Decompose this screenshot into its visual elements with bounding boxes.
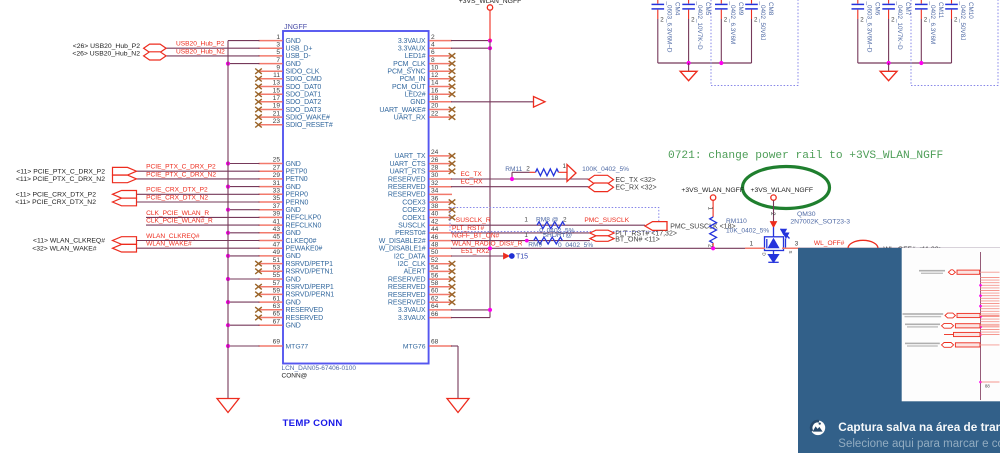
svg-text:2: 2 [924,17,928,24]
svg-text:UART_RTS: UART_RTS [390,169,426,176]
svg-text:_0402_10V7K~D: _0402_10V7K~D [696,1,703,51]
svg-text:35: 35 [273,195,281,202]
svg-text:GND: GND [286,230,301,237]
svg-text:67: 67 [273,318,281,325]
svg-text:64: 64 [431,303,439,310]
svg-text:24: 24 [431,149,439,156]
svg-text:EC_RX <32>: EC_RX <32> [615,185,656,192]
svg-text:WLAN_CLKREQ#: WLAN_CLKREQ# [146,233,200,240]
svg-text:33: 33 [273,188,281,195]
svg-text:1: 1 [750,241,754,248]
svg-text:W_DISABLE2#: W_DISABLE2# [379,238,426,245]
svg-text:2N7002K_SOT23-3: 2N7002K_SOT23-3 [790,219,850,226]
svg-text:1: 1 [276,34,280,41]
svg-text:41: 41 [273,218,281,225]
svg-text:66: 66 [431,311,439,318]
svg-text:2: 2 [754,17,758,24]
svg-text:RSRVD/PERP1: RSRVD/PERP1 [286,284,334,291]
svg-text:PCIE_CRX_DTX_N2: PCIE_CRX_DTX_N2 [146,194,208,201]
svg-text:16: 16 [431,87,439,94]
svg-text:PETP0: PETP0 [286,169,308,176]
svg-text:WLAN_RADIO_DIS#_R: WLAN_RADIO_DIS#_R [452,240,523,247]
svg-text:E51_RX2: E51_RX2 [461,248,490,255]
svg-text:RESERVED: RESERVED [388,284,426,291]
svg-text:2: 2 [954,17,958,24]
svg-text:RESERVED: RESERVED [286,307,324,314]
svg-text:RM11: RM11 [505,166,522,173]
svg-text:CM10: CM10 [967,2,974,19]
svg-text:62: 62 [431,295,439,302]
svg-text:46: 46 [431,234,439,241]
svg-text:NGFF_BT_ON#: NGFF_BT_ON# [452,233,500,240]
svg-text:15: 15 [273,87,281,94]
svg-text:<32> WLAN_WAKE#: <32> WLAN_WAKE# [32,245,97,252]
svg-text:PCM_CLK: PCM_CLK [393,61,426,68]
svg-text:RESERVED: RESERVED [388,176,426,183]
svg-text:RM9: RM9 [528,241,542,248]
svg-text:USB20_Hub_P2: USB20_Hub_P2 [176,41,225,48]
svg-text:MTG77: MTG77 [286,343,309,350]
svg-text:I2C_DATA: I2C_DATA [394,253,426,260]
svg-text:_0402_50V8J: _0402_50V8J [759,1,766,41]
svg-text:_0402_10V7K~D: _0402_10V7K~D [896,1,903,51]
svg-text:COEX1: COEX1 [402,215,425,222]
svg-text:3.3VAUX: 3.3VAUX [398,38,426,45]
svg-text:GND: GND [286,276,301,283]
svg-text:5: 5 [276,49,280,56]
svg-text:_0603_6.3V6M~D: _0603_6.3V6M~D [865,1,872,53]
svg-text:_0402_6.3V6M: _0402_6.3V6M [929,1,936,45]
svg-text:58: 58 [431,280,439,287]
svg-text:2: 2 [660,17,664,24]
svg-text:8: 8 [431,57,435,64]
svg-text:<11> PCIE_PTX_C_DRX_N2: <11> PCIE_PTX_C_DRX_N2 [16,176,105,183]
svg-text:54: 54 [431,265,439,272]
svg-text:GND: GND [286,38,301,45]
svg-text:SUSCLK_R: SUSCLK_R [456,217,491,224]
svg-text:4: 4 [431,42,435,49]
svg-text:MTG76: MTG76 [403,343,426,350]
svg-text:1: 1 [524,232,528,239]
svg-text:<11> PCIE_PTX_C_DRX_P2: <11> PCIE_PTX_C_DRX_P2 [16,168,105,175]
svg-text:CM7: CM7 [904,2,911,16]
svg-text:JNGFF: JNGFF [284,22,308,31]
svg-text:10: 10 [431,64,439,71]
svg-text:56: 56 [431,272,439,279]
svg-text:TEMP CONN: TEMP CONN [283,418,343,429]
svg-text:17: 17 [273,95,281,102]
svg-text:14: 14 [431,80,439,87]
svg-text:WLAN_WAKE#: WLAN_WAKE# [146,241,192,248]
svg-text:CLK_PCIE_WLAN_R: CLK_PCIE_WLAN_R [146,210,209,217]
svg-text:1: 1 [707,207,714,211]
svg-text:PCM_IN: PCM_IN [400,76,426,83]
svg-text:30: 30 [431,172,439,179]
svg-text:19: 19 [273,103,281,110]
svg-text:+3VS_WLAN_NGFF: +3VS_WLAN_NGFF [681,187,744,194]
svg-text:USB_D+: USB_D+ [286,46,313,53]
svg-text:42: 42 [431,218,439,225]
svg-text:UART_CTS: UART_CTS [389,161,425,168]
svg-text:2: 2 [769,212,776,216]
svg-text:SDO_DAT3: SDO_DAT3 [286,107,322,114]
svg-text:GND: GND [286,161,301,168]
svg-text:_0603_6.3V6M~D: _0603_6.3V6M~D [665,1,672,53]
svg-text:2: 2 [691,17,695,24]
svg-text:43: 43 [273,226,281,233]
svg-text:1: 1 [524,217,528,224]
svg-text:_0402_50V8J: _0402_50V8J [959,1,966,41]
svg-text:PCM_OUT: PCM_OUT [392,84,426,91]
svg-text:<11> WLAN_CLKREQ#: <11> WLAN_CLKREQ# [33,238,105,245]
svg-text:9: 9 [276,64,280,71]
svg-text:3.3VAUX: 3.3VAUX [398,315,426,322]
svg-text:SHORT@: SHORT@ [543,232,573,239]
svg-text:CM6: CM6 [873,2,880,16]
svg-text:RESERVED: RESERVED [388,292,426,299]
svg-text:GND: GND [286,323,301,330]
svg-text:63: 63 [273,303,281,310]
svg-text:REFCLKP0: REFCLKP0 [286,215,322,222]
svg-text:COEX3: COEX3 [402,199,425,206]
svg-text:CLK_PCIE_WLAN#_R: CLK_PCIE_WLAN#_R [146,218,213,225]
svg-text:GND: GND [286,207,301,214]
svg-text:13: 13 [273,80,281,87]
svg-text:31: 31 [273,180,281,187]
svg-text:PEWAKE0#: PEWAKE0# [286,246,323,253]
svg-text:QM30: QM30 [797,211,816,218]
svg-text:48: 48 [431,242,439,249]
svg-text:GND: GND [410,99,425,106]
svg-text:RESERVED: RESERVED [388,184,426,191]
svg-text:3: 3 [276,42,280,49]
svg-text:53: 53 [273,265,281,272]
svg-text:23: 23 [273,118,281,125]
svg-text:PCM_SYNC: PCM_SYNC [387,69,425,76]
svg-text:RM8 @: RM8 @ [536,217,559,224]
svg-text:2: 2 [707,244,714,248]
svg-text:CM9: CM9 [737,2,744,16]
svg-text:EC_RX: EC_RX [461,179,484,186]
svg-text:UART_TX: UART_TX [394,153,425,160]
svg-text:WL_OFF#: WL_OFF# [814,240,845,247]
svg-text:CONN@: CONN@ [282,372,308,379]
svg-text:49: 49 [273,249,281,256]
svg-text:69: 69 [273,339,281,346]
svg-text:44: 44 [431,226,439,233]
svg-text:10K_0402_5%: 10K_0402_5% [726,228,769,235]
svg-text:EC_TX: EC_TX [461,171,483,178]
svg-text:CM4: CM4 [673,2,680,16]
svg-text:GND: GND [286,299,301,306]
svg-text:CLKEQ0#: CLKEQ0# [286,238,317,245]
svg-text:REFCLKN0: REFCLKN0 [286,222,322,229]
svg-text:2: 2 [860,17,864,24]
svg-text:11: 11 [273,72,280,79]
svg-text:CM8: CM8 [767,2,774,16]
svg-text:UART_RX: UART_RX [394,114,426,121]
svg-text:28: 28 [431,165,439,172]
svg-text:38: 38 [431,203,439,210]
svg-text:COEX2: COEX2 [402,207,425,214]
svg-text:6: 6 [431,49,435,56]
svg-text:EC_TX <32>: EC_TX <32> [615,177,655,184]
svg-text:7: 7 [276,57,280,64]
svg-text:65: 65 [273,311,281,318]
svg-text:SDO_DAT1: SDO_DAT1 [286,92,322,99]
svg-text:PERP0: PERP0 [286,192,309,199]
svg-text:PERST0#: PERST0# [395,230,426,237]
svg-text:USB_D-: USB_D- [286,53,312,60]
svg-text:I2C_CLK: I2C_CLK [398,261,426,268]
svg-text:RSRVD/PETN1: RSRVD/PETN1 [286,269,334,276]
svg-text:<11> PCIE_CRX_DTX_P2: <11> PCIE_CRX_DTX_P2 [16,192,97,199]
svg-text:PCIE_PTX_C_DRX_N2: PCIE_PTX_C_DRX_N2 [146,171,216,178]
svg-text:LED2#: LED2# [405,92,426,99]
svg-text:GND: GND [286,253,301,260]
svg-text:GND: GND [286,184,301,191]
svg-text:25: 25 [273,157,281,164]
svg-text:SUSCLK: SUSCLK [398,223,426,230]
svg-text:29: 29 [273,172,281,179]
svg-text:12: 12 [431,72,439,79]
svg-text:SDIO_WAKE#: SDIO_WAKE# [286,114,330,121]
svg-text:+3VS_WLAN_NGFF: +3VS_WLAN_NGFF [459,0,522,5]
svg-text:USB20_Hub_N2: USB20_Hub_N2 [176,49,225,56]
svg-text:22: 22 [431,110,439,117]
svg-text:RM110: RM110 [726,218,747,225]
svg-text:20: 20 [431,103,439,110]
svg-text:2: 2 [431,34,435,41]
svg-text:2: 2 [526,166,530,173]
svg-text:PCIE_CRX_DTX_P2: PCIE_CRX_DTX_P2 [146,187,208,194]
svg-text:18: 18 [431,95,439,102]
svg-text:RESERVED: RESERVED [388,192,426,199]
svg-text:SIDO_CLK: SIDO_CLK [286,69,320,76]
svg-text:2: 2 [891,17,895,24]
svg-text:SDO_DAT2: SDO_DAT2 [286,99,322,106]
svg-text:PCIE_PTX_C_DRX_P2: PCIE_PTX_C_DRX_P2 [146,164,216,171]
svg-text:ALERT: ALERT [404,269,427,276]
svg-text:PMC_SUSCLK: PMC_SUSCLK [584,217,629,224]
svg-text:_0402_6.3V6M: _0402_6.3V6M [729,1,736,45]
svg-text:52: 52 [431,257,439,264]
svg-text:T15: T15 [516,254,528,261]
svg-text:59: 59 [273,288,281,295]
svg-text:68: 68 [431,339,439,346]
svg-text:45: 45 [273,234,281,241]
svg-text:S: S [788,251,793,254]
svg-text:W_DISABLE1#: W_DISABLE1# [379,246,426,253]
svg-text:RESERVED: RESERVED [286,315,324,322]
svg-text:CM11: CM11 [937,2,944,19]
svg-text:PLT_RST#: PLT_RST# [452,225,484,232]
svg-text:LED1#: LED1# [405,53,426,60]
svg-text:CM5: CM5 [704,2,711,16]
svg-text:3.3VAUX: 3.3VAUX [398,307,426,314]
svg-text:+3VS_WLAN_NGFF: +3VS_WLAN_NGFF [751,187,814,194]
svg-text:55: 55 [273,272,281,279]
svg-text:RSRVD/PERN1: RSRVD/PERN1 [286,292,335,299]
svg-text:50: 50 [431,249,439,256]
svg-text:1: 1 [563,163,567,170]
svg-text:26: 26 [431,157,439,164]
svg-text:36: 36 [431,195,439,202]
svg-text:RSRVD/PETP1: RSRVD/PETP1 [286,261,334,268]
svg-text:LCN_DAN05-67406-0100: LCN_DAN05-67406-0100 [282,365,357,372]
svg-text:60: 60 [431,288,439,295]
svg-text:40: 40 [431,211,439,218]
svg-text:PERN0: PERN0 [286,199,309,206]
svg-text:88: 88 [985,384,990,389]
svg-text:Captura salva na área de trans: Captura salva na área de transferência [838,420,1000,434]
svg-text:<26> USB20_Hub_N2: <26> USB20_Hub_N2 [72,50,140,57]
svg-text:<11> PCIE_CRX_DTX_N2: <11> PCIE_CRX_DTX_N2 [15,199,96,206]
svg-text:GND: GND [286,61,301,68]
svg-text:BT_ON# <11>: BT_ON# <11> [615,237,660,244]
svg-text:61: 61 [273,295,281,302]
svg-text:SDIO_CMD: SDIO_CMD [286,76,322,83]
svg-text:PETN0: PETN0 [286,176,308,183]
svg-text:37: 37 [273,203,281,210]
svg-text:3.3VAUX: 3.3VAUX [398,46,426,53]
svg-text:2: 2 [724,17,728,24]
svg-text:39: 39 [273,211,281,218]
svg-text:RESERVED: RESERVED [388,300,426,307]
svg-text:100K_0402_5%: 100K_0402_5% [582,166,629,173]
svg-text:57: 57 [273,280,281,287]
svg-text:Selecione aqui para marcar e c: Selecione aqui para marcar e compartilha… [838,438,1000,450]
svg-text:3: 3 [795,241,799,248]
svg-text:34: 34 [431,188,439,195]
svg-text:21: 21 [273,110,281,117]
svg-text:51: 51 [273,257,281,264]
svg-text:<26> USB20_Hub_P2: <26> USB20_Hub_P2 [73,43,140,50]
svg-text:SDIO_RESET#: SDIO_RESET# [286,122,333,129]
svg-text:27: 27 [273,164,281,171]
svg-text:SDO_DAT0: SDO_DAT0 [286,84,322,91]
svg-text:2: 2 [563,217,567,224]
svg-text:32: 32 [431,180,439,187]
svg-text:UART_WAKE#: UART_WAKE# [379,107,425,114]
svg-text:0721: change power rail to +3V: 0721: change power rail to +3VS_WLAN_NGF… [668,150,943,162]
svg-text:RESERVED: RESERVED [388,276,426,283]
svg-text:47: 47 [273,241,281,248]
